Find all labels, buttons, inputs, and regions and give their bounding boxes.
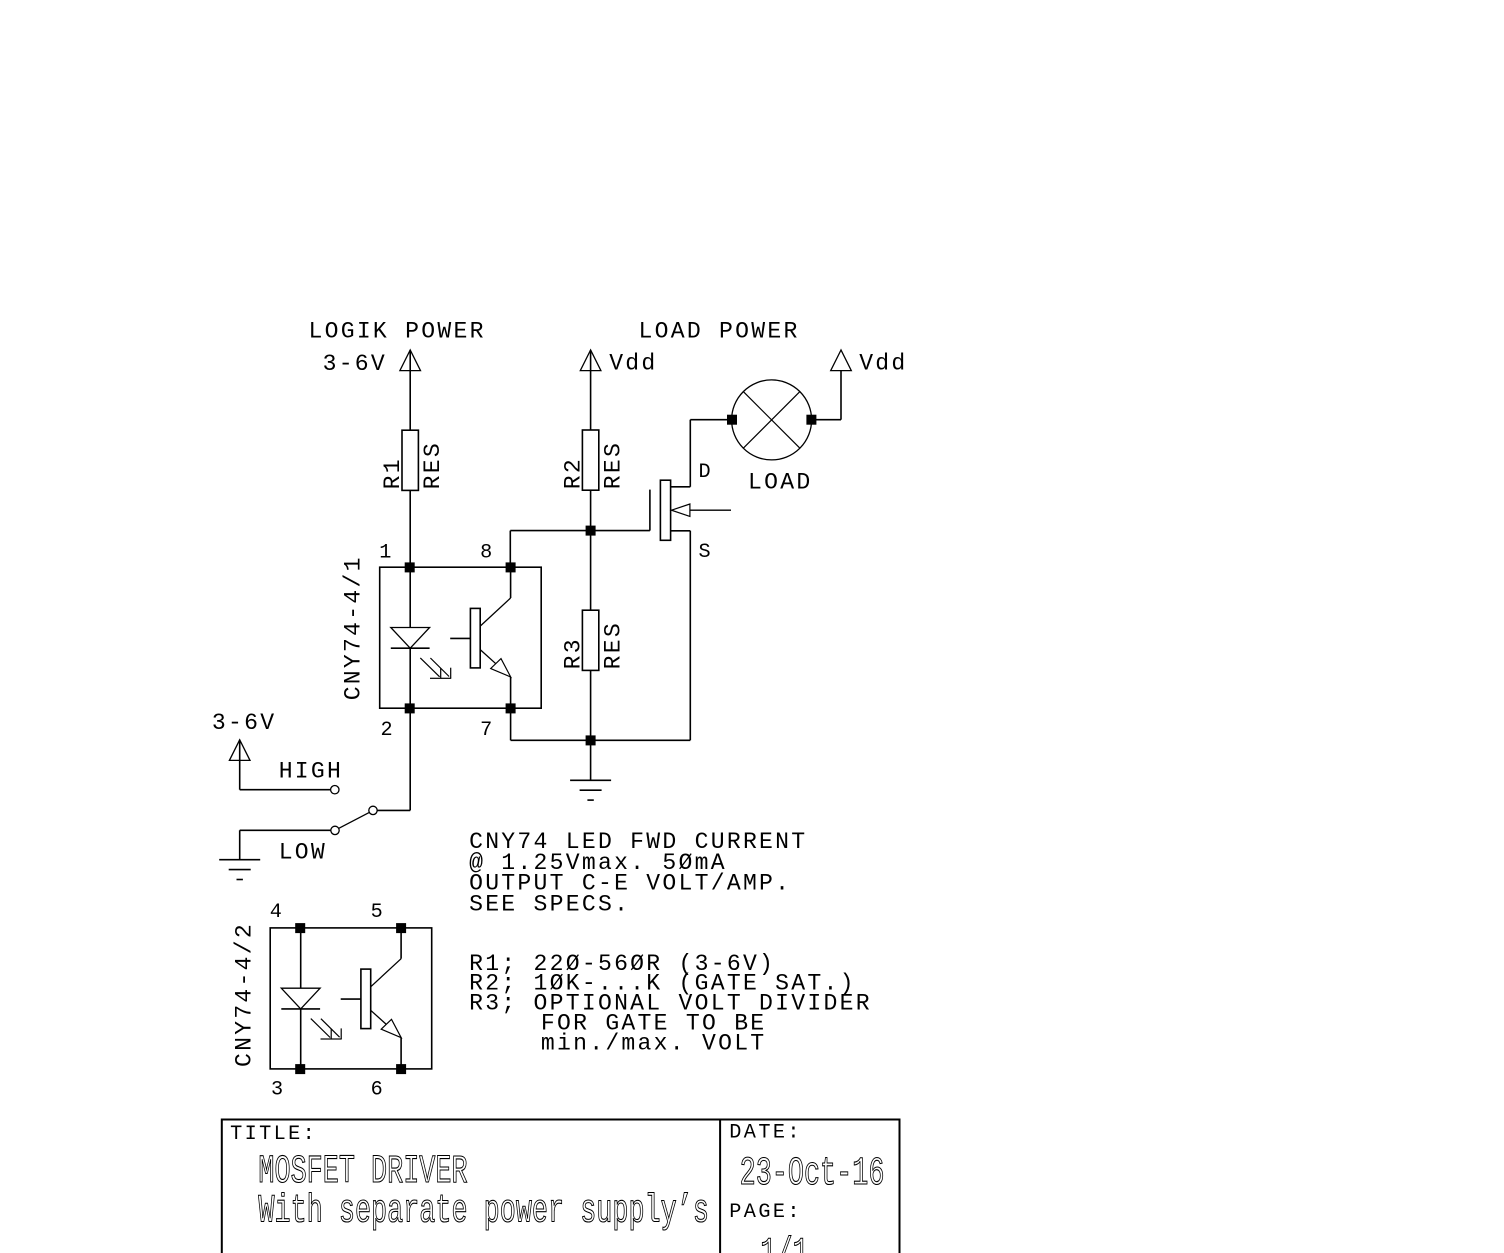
- svg-text:LOW: LOW: [279, 840, 327, 866]
- label S (source): [699, 541, 714, 564]
- label R1: [380, 457, 406, 489]
- wire pin 2 down to switch pole: [377, 708, 410, 810]
- transistor Q1 source stub: [671, 530, 691, 532]
- svg-text:3: 3: [271, 1078, 286, 1101]
- ground symbol (R3 divider): [570, 780, 611, 800]
- pin number 2: [380, 719, 395, 742]
- pin number 8: [480, 542, 495, 565]
- transistor Q1 N-MOSFET channel bar: [660, 480, 670, 540]
- svg-text:R3: R3: [560, 637, 586, 669]
- wire load left to drain riser: [690, 420, 727, 487]
- wire gate rail from pin 8 to gate: [510, 531, 650, 568]
- svg-text:D: D: [699, 461, 714, 484]
- title block outer border: [222, 1120, 900, 1253]
- svg-text:R2: R2: [560, 457, 586, 489]
- svg-text:SEE SPECS.: SEE SPECS.: [469, 891, 630, 917]
- svg-text:MOSFET DRIVER: MOSFET DRIVER: [258, 1151, 467, 1195]
- svg-text:8: 8: [480, 542, 495, 565]
- svg-text:PAGE:: PAGE:: [729, 1201, 802, 1224]
- label PAGE:: [729, 1201, 802, 1224]
- switch S1 LOW contact circle: [331, 826, 339, 834]
- net label LOAD POWER: [639, 319, 800, 345]
- node junction R2/gate rail: [586, 526, 595, 535]
- value label RES (R1): [420, 441, 446, 489]
- voltage label 3-6V (switch): [212, 710, 276, 736]
- pin number 5: [371, 901, 386, 924]
- svg-text:LOAD POWER: LOAD POWER: [639, 319, 800, 345]
- label R2: [560, 457, 586, 489]
- power supply arrow 3-6V (high level): [229, 740, 250, 761]
- svg-text:RES: RES: [601, 621, 627, 669]
- power supply arrow Vdd (left): [580, 350, 601, 371]
- wire bottom rail pin7/ground/source: [511, 531, 691, 741]
- net label LOGIK POWER: [309, 319, 486, 345]
- svg-text:1: 1: [379, 542, 394, 565]
- label Vdd (right): [859, 351, 907, 377]
- svg-text:23-Oct-16: 23-Oct-16: [740, 1152, 885, 1196]
- optocoupler CNY74-4/1 label: [341, 555, 367, 700]
- resistor R1: [402, 430, 418, 490]
- phototransistor of CNY74-4/2 (collector pin 5, emitter pin 6): [341, 928, 402, 1069]
- wire arrow to HIGH contact: [240, 740, 331, 790]
- svg-text:1/1: 1/1: [760, 1233, 808, 1253]
- ground symbol (logic low): [219, 860, 260, 880]
- wire arrow to R1 top: [409, 350, 411, 430]
- transistor Q1 gate bar: [649, 490, 651, 531]
- label R3: [560, 637, 586, 669]
- switch S1 HIGH contact circle: [331, 786, 339, 794]
- wire junction down to R3 top: [590, 531, 592, 611]
- label LOAD: [748, 469, 812, 495]
- label Vdd (left): [609, 351, 657, 377]
- resistor R2: [582, 430, 598, 490]
- svg-text:6: 6: [371, 1078, 386, 1101]
- svg-text:With separate power supply’s: With separate power supply’s: [258, 1190, 709, 1234]
- svg-text:CNY74-4/2: CNY74-4/2: [231, 922, 257, 1067]
- pin number 4: [270, 901, 285, 924]
- page text 1/1: [760, 1233, 808, 1253]
- svg-text:R1: R1: [380, 457, 406, 489]
- svg-text:LOAD: LOAD: [748, 469, 812, 495]
- power supply arrow 3-6V (logik power): [400, 350, 421, 371]
- svg-text:LOGIK POWER: LOGIK POWER: [309, 319, 486, 345]
- date text 23-Oct-16: [740, 1152, 885, 1196]
- resistor R3: [582, 610, 598, 670]
- optocoupler CNY74-4/2 label: [231, 922, 257, 1067]
- light emission arrows of CNY74-4/1: [420, 658, 451, 678]
- node load right junction square: [807, 415, 816, 424]
- optocoupler CNY74-4/2 package box: [270, 928, 432, 1069]
- node junction bottom rail / ground: [586, 736, 595, 745]
- value label RES (R2): [601, 441, 627, 489]
- svg-text:RES: RES: [601, 441, 627, 489]
- pin 6 (bottom-right) junction square: [397, 1065, 406, 1074]
- node load left junction square: [728, 415, 737, 424]
- wire R1 bottom to pin 1: [409, 490, 411, 567]
- pin number 7: [480, 719, 495, 742]
- svg-text:S: S: [699, 541, 714, 564]
- pin number 3: [271, 1078, 286, 1101]
- svg-text:DATE:: DATE:: [729, 1121, 802, 1144]
- pin 1 (top-left) junction square: [405, 563, 414, 572]
- svg-text:2: 2: [380, 719, 395, 742]
- svg-text:5: 5: [371, 901, 386, 924]
- svg-text:3-6V: 3-6V: [323, 351, 387, 377]
- wire Vdd arrow to R2 top: [590, 350, 592, 430]
- pin 7 (bottom-right) junction square: [506, 704, 515, 713]
- pin 4 (top-left) junction square: [296, 924, 305, 933]
- pin number 1: [379, 542, 394, 565]
- pin number 6: [371, 1078, 386, 1101]
- transistor Q1 drain stub: [671, 486, 691, 488]
- svg-text:min./max. VOLT: min./max. VOLT: [541, 1030, 767, 1056]
- pin 3 (bottom-left) junction square: [296, 1065, 305, 1074]
- optocoupler CNY74-4/1 package box: [380, 567, 542, 708]
- note text resistor values: [469, 951, 872, 1057]
- value label RES (R3): [601, 621, 627, 669]
- svg-text:TITLE:: TITLE:: [230, 1123, 317, 1146]
- wire junction to ground: [590, 740, 592, 780]
- switch S1 lever: [339, 812, 370, 828]
- label LOW: [279, 840, 327, 866]
- svg-text:Vdd: Vdd: [609, 351, 657, 377]
- light emission arrows of CNY74-4/2: [311, 1019, 342, 1039]
- title text MOSFET DRIVER: [258, 1151, 467, 1195]
- subtitle text: [258, 1190, 709, 1234]
- LED of CNY74-4/2 (anode pin 4, cathode pin 3): [281, 928, 320, 1069]
- power supply arrow Vdd (right): [831, 350, 852, 371]
- svg-text:3-6V: 3-6V: [212, 710, 276, 736]
- label TITLE:: [230, 1123, 317, 1146]
- wire R3 bottom to bottom rail: [590, 670, 592, 740]
- label DATE:: [729, 1121, 802, 1144]
- label D (drain): [699, 461, 714, 484]
- svg-text:RES: RES: [420, 441, 446, 489]
- pin 5 (top-right) junction square: [397, 924, 406, 933]
- phototransistor of CNY74-4/1 (collector pin 8, emitter pin 7): [450, 567, 511, 708]
- voltage label 3-6V (top): [323, 351, 387, 377]
- title block divider: [719, 1120, 721, 1253]
- LED of CNY74-4/1 (anode pin 1, cathode pin 2): [391, 567, 430, 708]
- wire R2 bottom to gate rail junction: [590, 490, 592, 530]
- svg-text:Vdd: Vdd: [859, 351, 907, 377]
- pin 8 (top-right) junction square: [506, 563, 515, 572]
- wire LOW contact to ground: [240, 830, 331, 859]
- label HIGH: [279, 759, 343, 785]
- svg-text:7: 7: [480, 719, 495, 742]
- load lamp circle with X: [732, 380, 812, 460]
- svg-text:4: 4: [270, 901, 285, 924]
- switch S1 pole circle: [369, 806, 377, 814]
- svg-text:HIGH: HIGH: [279, 759, 343, 785]
- note text CNY74 LED ratings: [469, 829, 807, 917]
- wire Vdd arrow down to load: [816, 371, 841, 420]
- transistor Q1 body arrow: [672, 504, 732, 516]
- svg-text:CNY74-4/1: CNY74-4/1: [341, 555, 367, 700]
- pin 2 (bottom-left) junction square: [405, 704, 414, 713]
